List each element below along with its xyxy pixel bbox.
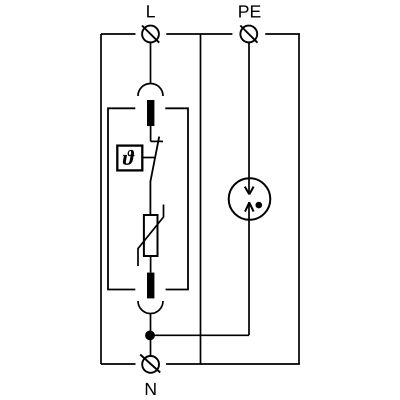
thermal element symbol xyxy=(123,150,135,165)
wire L column upper xyxy=(150,42,152,84)
terminal L xyxy=(142,26,159,43)
wire top-left segment (L feed) xyxy=(101,33,136,35)
wire varistor to lower bar xyxy=(150,256,152,273)
wire right rail xyxy=(298,34,300,364)
spark gap down arrowhead xyxy=(245,187,254,195)
wire arc to N terminal xyxy=(150,314,152,357)
contact blade bottom (black bar) xyxy=(147,273,154,299)
wire middle rail xyxy=(200,34,202,364)
plug-in connection bottom (socket arc) xyxy=(138,301,163,314)
terminal PE xyxy=(240,26,257,43)
contact blade top (black bar) xyxy=(147,100,154,126)
spark gap up arrowhead xyxy=(245,203,254,212)
thermal disconnect switch blade xyxy=(150,137,159,215)
varistor body xyxy=(144,215,158,256)
varistor diagonal xyxy=(138,205,164,267)
label N xyxy=(146,383,156,395)
thermal disconnect switch contact tick xyxy=(151,140,163,142)
wire PE column lower xyxy=(248,202,250,335)
thermal element box xyxy=(117,146,142,171)
wire top-middle segment (L to PE) xyxy=(166,33,232,35)
wire bar to switch xyxy=(150,126,152,141)
wire top-right segment (PE to right rail) xyxy=(265,33,300,35)
wire left rail xyxy=(100,34,102,364)
label L xyxy=(147,5,155,17)
wire junction to spark-gap column xyxy=(150,334,249,336)
plug-in connection top (socket arc) xyxy=(138,84,163,97)
label PE xyxy=(239,5,260,17)
spark gap marking dot xyxy=(255,202,262,209)
terminal N xyxy=(140,355,160,373)
wire bottom-left segment xyxy=(101,363,136,365)
wire bottom-right segment xyxy=(166,363,300,365)
enclosure box xyxy=(108,108,188,289)
link thermal element to switch xyxy=(143,157,156,159)
junction dot xyxy=(145,331,155,341)
wire PE column upper xyxy=(248,42,250,194)
isolating spark gap circle xyxy=(229,178,271,220)
